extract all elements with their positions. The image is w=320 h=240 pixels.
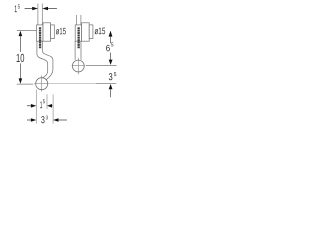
svg-text:5: 5 bbox=[43, 99, 45, 105]
svg-text:6: 6 bbox=[106, 43, 111, 53]
svg-text:ø15: ø15 bbox=[56, 26, 66, 36]
svg-text:5: 5 bbox=[114, 72, 117, 78]
svg-text:3: 3 bbox=[46, 115, 48, 121]
svg-text:ø15: ø15 bbox=[94, 25, 105, 36]
svg-text:3: 3 bbox=[108, 72, 113, 83]
svg-text:10: 10 bbox=[16, 51, 25, 65]
svg-text:5: 5 bbox=[111, 42, 114, 48]
svg-text:3: 3 bbox=[41, 115, 45, 126]
svg-text:5: 5 bbox=[18, 5, 20, 11]
